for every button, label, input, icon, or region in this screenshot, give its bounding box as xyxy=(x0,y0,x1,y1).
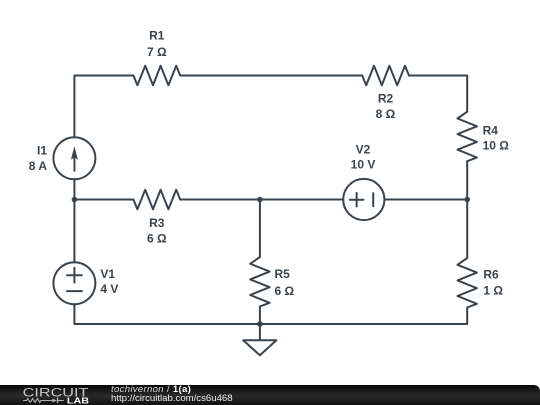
V2 plus sign xyxy=(350,193,364,207)
resistor R2 zigzag xyxy=(362,66,409,85)
footer bar xyxy=(0,385,540,405)
wire middle rail center (R3 to V2) xyxy=(180,199,343,201)
resistor R3 zigzag xyxy=(133,190,180,209)
footer url text xyxy=(111,394,233,404)
wire right column between R4 and R6 xyxy=(466,161,468,258)
svg-text:I1: I1 xyxy=(37,143,47,157)
node A junction dot (left column / middle rail) xyxy=(72,197,78,203)
wire top-right corner (R2 to R4) xyxy=(409,76,467,112)
wire R5 bottom stem xyxy=(259,307,261,325)
wire top-left corner (left column to R1) xyxy=(74,76,133,138)
footer title text xyxy=(111,385,191,395)
current source I1 circle xyxy=(53,137,95,179)
ground symbol triangle xyxy=(243,340,276,355)
svg-text:R4: R4 xyxy=(483,123,499,137)
node B junction dot (R5 / middle rail) xyxy=(257,197,263,203)
resistor R1 zigzag xyxy=(133,66,180,85)
svg-text:10 V: 10 V xyxy=(351,158,376,172)
svg-text:1 Ω: 1 Ω xyxy=(483,284,503,298)
svg-text:R2: R2 xyxy=(378,92,394,106)
V2 minus sign (rotated bar) xyxy=(372,193,374,206)
svg-text:4 V: 4 V xyxy=(100,282,118,296)
svg-text:R5: R5 xyxy=(275,267,291,281)
svg-text:6 Ω: 6 Ω xyxy=(275,284,295,298)
svg-text:R6: R6 xyxy=(483,268,499,282)
svg-text:8 Ω: 8 Ω xyxy=(376,107,396,121)
CircuitLab logo xyxy=(18,385,118,405)
V1 minus sign xyxy=(67,290,82,292)
resistor R5 zigzag xyxy=(250,257,269,307)
svg-text:7 Ω: 7 Ω xyxy=(147,45,167,59)
wire middle rail left (node to R3) xyxy=(74,199,133,201)
V1 plus sign xyxy=(67,268,82,283)
wire top rail middle (R1 to R2) xyxy=(180,75,362,77)
node C junction dot (right column / middle rail) xyxy=(464,197,470,203)
wire middle rail right (V2 to right column) xyxy=(385,199,468,201)
svg-text:V2: V2 xyxy=(356,143,371,157)
svg-text:10 Ω: 10 Ω xyxy=(483,139,510,153)
svg-text:V1: V1 xyxy=(100,267,115,281)
wire ground stem xyxy=(259,324,261,340)
svg-text:R1: R1 xyxy=(149,29,165,43)
wire R5 top stem xyxy=(259,200,261,258)
svg-text:8 A: 8 A xyxy=(29,159,48,173)
resistor R4 zigzag xyxy=(458,112,477,162)
voltage source V2 circle xyxy=(343,179,384,220)
wire left column between I1 and V1 xyxy=(73,179,75,262)
node ground junction dot (R5 / bottom rail) xyxy=(257,321,263,327)
svg-text:LAB: LAB xyxy=(67,395,89,405)
I1 arrow xyxy=(71,146,78,171)
svg-text:R3: R3 xyxy=(149,216,165,230)
resistor R6 zigzag xyxy=(458,258,477,308)
svg-text:6 Ω: 6 Ω xyxy=(147,232,167,246)
wire bottom rail with corners xyxy=(74,304,467,324)
voltage source V1 circle xyxy=(53,262,95,304)
